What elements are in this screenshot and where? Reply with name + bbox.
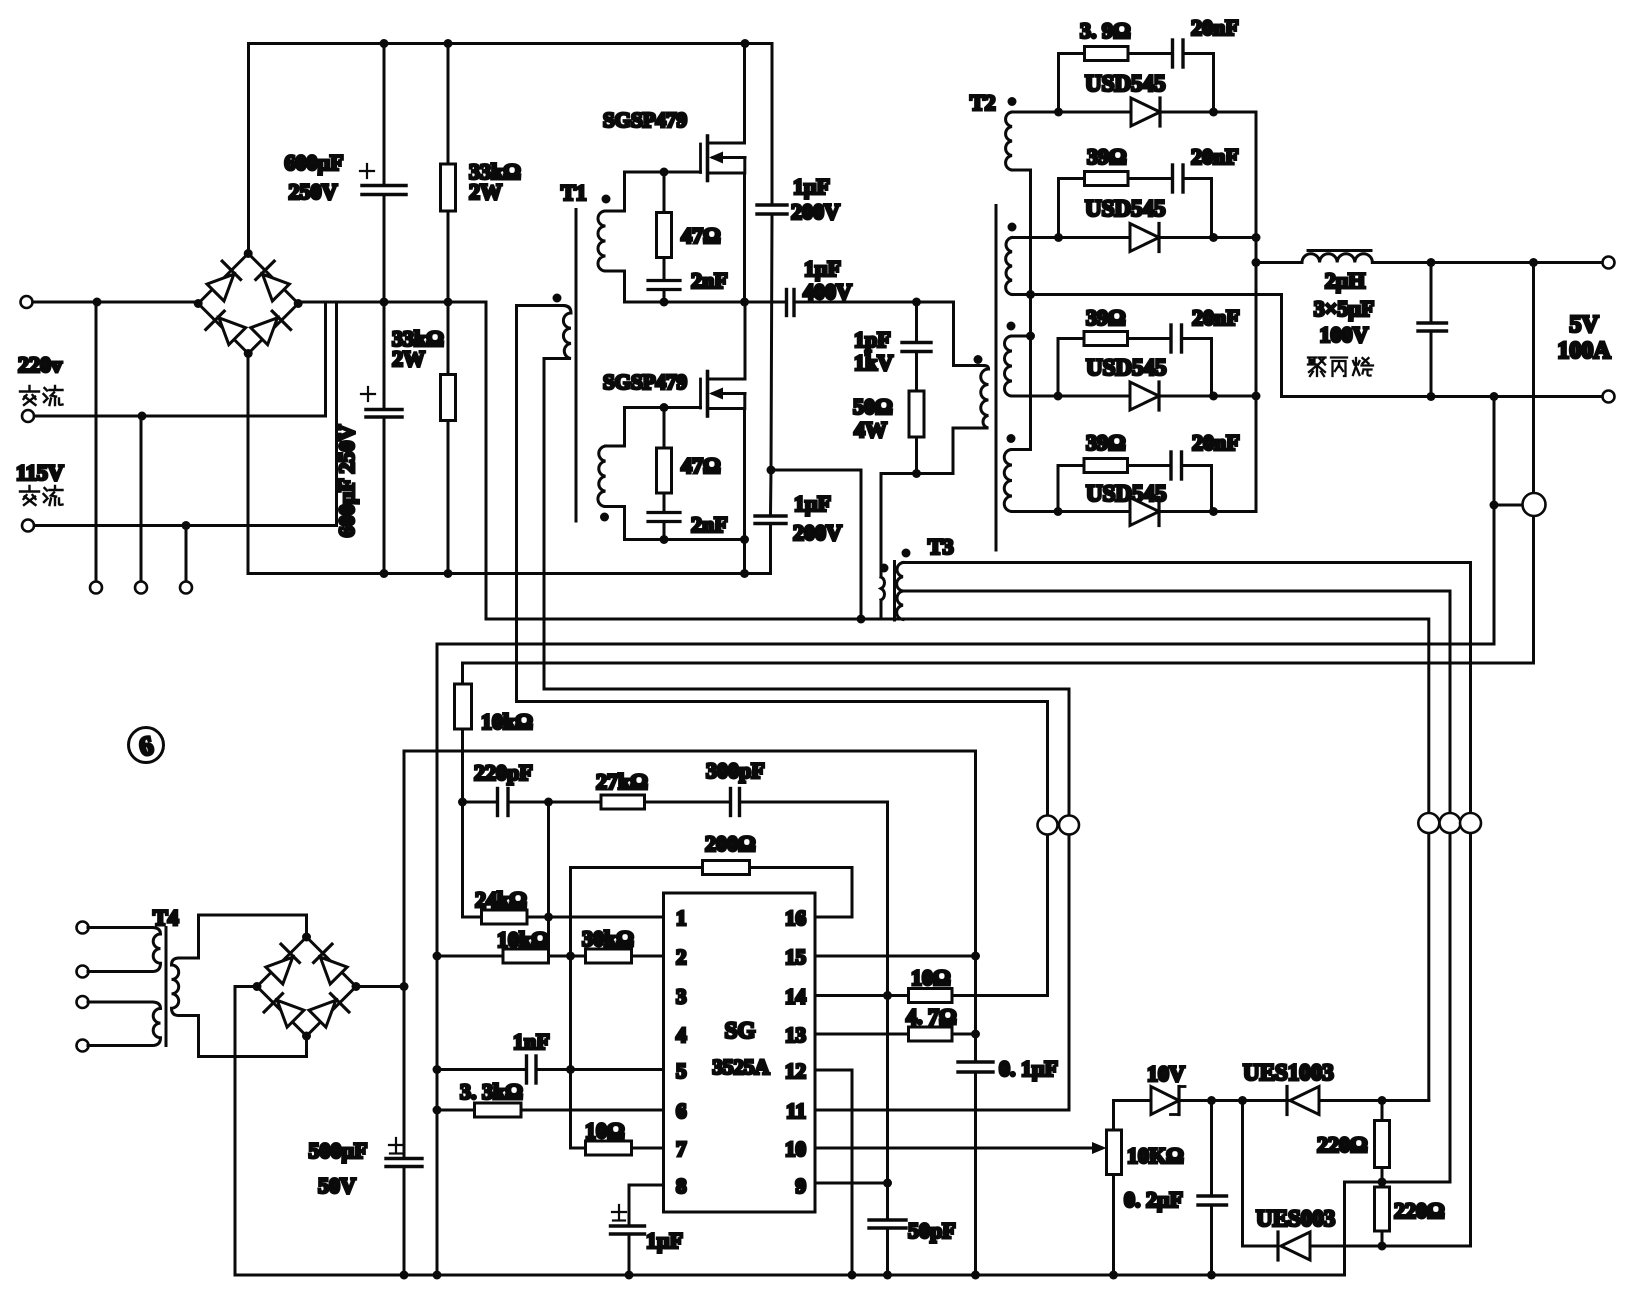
node 0.1uF bus on ground rail [971, 1271, 980, 1280]
node input3 tap [182, 521, 191, 530]
resistor R15 4.7 Ohm [909, 1027, 976, 1041]
svg-text:SGSP479: SGSP479 [603, 108, 687, 132]
svg-text:100V: 100V [1320, 322, 1369, 347]
resistor R13 10 Ohm pin7 [571, 1141, 664, 1155]
wire 200 Ohm feedback loop [571, 868, 853, 918]
resistor R17 220 Ohm upper [1375, 1101, 1390, 1188]
wire T3 secondary mid tap (long) [903, 591, 1450, 1182]
svg-text:2W: 2W [469, 179, 502, 204]
capacitor C10 500uF 50V [386, 1138, 422, 1275]
node C1 bottom on mid bus [380, 298, 389, 307]
terminal output + [1603, 257, 1615, 269]
svg-text:2nF: 2nF [691, 268, 728, 293]
wire HV return / T3 bottom line (long) [486, 619, 1429, 1101]
T2 primary winding [981, 366, 989, 429]
node Q2 source on cell bottom [740, 535, 749, 544]
node D3 cathode snubber join [1209, 392, 1218, 401]
IC U1 SG3525A box [664, 893, 816, 1212]
wire Vcc vertical [403, 751, 406, 1157]
T4 terminals [77, 922, 89, 1052]
node gate2 / R4 junction [660, 403, 669, 412]
svg-text:4W: 4W [854, 417, 887, 442]
wire pin9 line [815, 1182, 888, 1185]
snubber cell 2: resistor 39 Ohm [1059, 172, 1172, 238]
svg-text:10Ω: 10Ω [585, 1118, 625, 1143]
capacitor C15 0.1uF [958, 1062, 993, 1072]
node pin5 left end [433, 1065, 442, 1074]
svg-text:10: 10 [785, 1137, 806, 1161]
svg-text:10V: 10V [1147, 1061, 1185, 1086]
node pin6 left end [433, 1106, 442, 1115]
svg-text:9: 9 [796, 1174, 807, 1198]
wire w1-w2-w3-w4 common bus [1029, 170, 1032, 450]
node 50pF bus on ground rail [883, 1271, 892, 1280]
T4 primary winding upper [88, 928, 161, 972]
node output - / cap [1427, 392, 1436, 401]
wire UES003 right riser [1469, 1245, 1471, 1248]
svg-text:10kΩ: 10kΩ [497, 927, 549, 952]
svg-text:30kΩ: 30kΩ [582, 926, 634, 951]
svg-text:3: 3 [676, 985, 687, 1009]
resistor R14 10 Ohm [909, 989, 1048, 1003]
node D4 cathode snubber join [1209, 507, 1218, 516]
wire ground stub 1 [95, 302, 98, 582]
svg-text:13: 13 [785, 1023, 806, 1047]
svg-text:2: 2 [676, 945, 687, 969]
svg-text:39Ω: 39Ω [1087, 144, 1127, 169]
svg-text:SGSP479: SGSP479 [603, 370, 687, 394]
wire 220 Ohm mid tie line [1345, 1182, 1451, 1275]
resistor R3 47 Ohm [657, 172, 672, 279]
svg-text:400V: 400V [803, 279, 852, 304]
label U1 SG 3525A [712, 1018, 770, 1079]
svg-text:220v: 220v [18, 352, 62, 377]
node D2 row on cathode bus [1252, 233, 1261, 242]
node pin13 / 0.1uF bus [971, 1030, 980, 1039]
wire bead stub [1494, 504, 1523, 507]
terminal gnd 2 [135, 582, 147, 594]
zener diode D5 10V [1114, 1087, 1243, 1131]
node pin12 on ground rail [848, 1271, 857, 1280]
wire Vcc rail corner [404, 751, 976, 1062]
node 2nF/R3 bottom [660, 298, 669, 307]
node output + / sense drop [1529, 258, 1538, 267]
wire R5 junction to T2 primary bottom [917, 428, 985, 474]
capacitor C17 0.2uF [1198, 1101, 1227, 1276]
wire 220pF-27k node drop [547, 802, 550, 956]
transformer T3 core [893, 562, 896, 621]
label 115V AC (hanzi) [20, 486, 63, 505]
svg-text:47Ω: 47Ω [681, 223, 721, 248]
ferrite bead on +5V sense [1523, 493, 1546, 516]
resistor R9 10kOhm [503, 949, 586, 963]
svg-text:15: 15 [785, 945, 806, 969]
node T2 w3 phase dot [1007, 322, 1016, 331]
wire pin14 line [815, 994, 909, 997]
snubber cell 1: resistor 3.9 Ohm [1059, 47, 1172, 113]
svg-text:10kΩ: 10kΩ [481, 709, 533, 734]
diode D2 USD545 [1059, 224, 1257, 252]
wire ground stub 2 [140, 416, 143, 582]
resistor R12 3.3kOhm [475, 1103, 664, 1117]
svg-text:220Ω: 220Ω [1317, 1132, 1368, 1157]
node top rail / R1 junction [444, 39, 453, 48]
svg-text:600μF: 600μF [285, 150, 344, 175]
wire pin11 line [815, 1109, 1069, 1112]
label 5V 100A [1557, 312, 1611, 364]
node pin9 / 50pF bus [883, 1179, 892, 1188]
wire C5 top to T3 drop [771, 470, 861, 619]
svg-text:50pF: 50pF [908, 1218, 956, 1243]
T2 secondary winding 1 [1006, 112, 1059, 295]
label C8 value [791, 174, 840, 224]
svg-text:1kV: 1kV [854, 350, 893, 375]
node Q2 source on bottom rail [740, 569, 749, 578]
svg-text:14: 14 [785, 985, 807, 1009]
transistor Q2 SGSP479 [701, 302, 746, 574]
node mid wire / T2 primary top [912, 298, 921, 307]
wire voltage feedback line (0V sense) [437, 397, 1494, 1276]
wire pin8 to 1uF [629, 1185, 664, 1225]
node C5 top junction [767, 466, 776, 475]
svg-text:1nF: 1nF [513, 1029, 550, 1054]
terminal input 3 [22, 520, 34, 532]
wire pin14 riser to T1 lead A [1046, 702, 1049, 996]
capacitor C4 2nF [648, 513, 680, 540]
node D1 anode [1054, 108, 1063, 117]
node C11 left / R6 bottom [458, 798, 467, 807]
node R5 bottom junction [912, 469, 921, 478]
node T1 lower winding phase dot [600, 513, 609, 522]
node top rail / Q1 drain junction [741, 39, 750, 48]
svg-text:3. 3kΩ: 3. 3kΩ [460, 1079, 523, 1104]
node pin2 / 200 Ohm drop [566, 952, 575, 961]
resistor R1 33kOhm 2W [441, 44, 456, 303]
node D2 cathode snubber join [1209, 233, 1218, 242]
node zener line / UES003 drop [1238, 1096, 1247, 1105]
wire ground stub 3 [185, 526, 188, 583]
node R1 bottom on mid bus [444, 298, 453, 307]
resistor R4 47 Ohm [657, 408, 672, 512]
svg-text:0. 1μF: 0. 1μF [999, 1056, 1058, 1081]
transistor Q1 SGSP479 [701, 44, 746, 303]
svg-text:T2: T2 [970, 90, 996, 115]
wire +5V sense line [463, 263, 1534, 664]
T4 primary winding lower [88, 1002, 161, 1046]
bridge rectifier B1 [194, 249, 303, 358]
wire Q1 gate line [625, 171, 701, 174]
wire rectifier cathode bus [1255, 112, 1258, 512]
svg-text:2W: 2W [392, 346, 425, 371]
node input2 tap [138, 412, 147, 421]
label C5 value [793, 491, 842, 545]
node divider mid [1378, 1178, 1387, 1187]
svg-text:220Ω: 220Ω [1394, 1198, 1445, 1223]
label R1 value [469, 159, 521, 204]
svg-text:1μF: 1μF [793, 174, 830, 199]
terminal gnd 1 [90, 582, 102, 594]
T2 secondary winding 3 [1005, 336, 1059, 396]
svg-text:115V: 115V [16, 460, 64, 485]
node w1/w2 common [1026, 290, 1035, 299]
wire T1 primary lead B down [544, 359, 1069, 690]
capacitor C14 1uF [611, 1205, 645, 1275]
terminal output - [1603, 391, 1615, 403]
capacitor C11 220pF [463, 789, 549, 816]
transformer T2 core [995, 206, 998, 551]
node T3 secondary phase dot [902, 549, 911, 558]
node Vcc on ground rail [400, 1271, 409, 1280]
wire bridge B1 negative to bottom rail [248, 354, 771, 574]
label U1 pin numbers left [676, 906, 687, 1198]
terminal gnd 3 [180, 582, 192, 594]
svg-text:600μF 250V: 600μF 250V [334, 425, 359, 538]
terminal input 1 [21, 296, 33, 308]
svg-text:1pF: 1pF [854, 327, 891, 352]
svg-text:300pF: 300pF [706, 758, 765, 783]
wire pin12 to ground [815, 1070, 852, 1275]
svg-text:39Ω: 39Ω [1086, 430, 1126, 455]
node cathode bus to filter [1252, 258, 1261, 267]
wire half-bridge mid node (y302) [625, 301, 787, 304]
label R5 value [853, 394, 893, 442]
label C1 value [285, 150, 344, 204]
wire pin2 line with R9 R10 [437, 955, 503, 958]
svg-text:500μF: 500μF [309, 1138, 368, 1163]
node T2 w1 phase dot [1008, 97, 1017, 106]
capacitor C6 1uF 400V coupling [787, 290, 917, 316]
snubber cell 2: capacitor 20nF [1173, 165, 1212, 238]
svg-text:USD545: USD545 [1086, 481, 1167, 506]
capacitor C5 1uF 200V (lower) [755, 470, 786, 574]
svg-text:2nF: 2nF [691, 512, 728, 537]
node pin5 / vertical join [566, 1065, 575, 1074]
wire T3 secondary top lead (long) [903, 563, 1471, 1247]
node bead tap [1490, 501, 1499, 510]
resistor R8 27kOhm [549, 795, 730, 809]
resistor R2 33kOhm 2W (lower) [441, 302, 456, 574]
svg-text:50V: 50V [318, 1173, 356, 1198]
node T1 upper winding phase dot [602, 195, 611, 204]
label U1 pin numbers right [785, 906, 807, 1198]
svg-text:T1: T1 [561, 180, 587, 205]
svg-text:7: 7 [676, 1137, 687, 1161]
node zener line / 0.2uF [1207, 1096, 1216, 1105]
wire pin1 line [527, 916, 664, 919]
node top rail / C1 junction [380, 39, 389, 48]
wire pin5 line [437, 1068, 525, 1071]
node pin14 / 300pF bus [883, 991, 892, 1000]
svg-text:3. 9Ω: 3. 9Ω [1080, 18, 1131, 43]
resistor R7 24kOhm [463, 910, 528, 924]
ferrite bead pair on risers [1038, 816, 1080, 835]
node R2 bottom on bottom rail [444, 569, 453, 578]
capacitor C2 600uF 250V (lower) [361, 302, 402, 574]
capacitor C3 2nF [648, 281, 680, 303]
resistor R10 30kOhm [586, 949, 664, 963]
wire AC input line 3 (115V) [28, 302, 337, 526]
label C7 value [854, 327, 893, 375]
wire pin6 line [437, 1109, 475, 1112]
label C10 value [309, 1138, 368, 1198]
T2 secondary winding 4 [1004, 450, 1058, 512]
node T2 w2 phase dot [1008, 223, 1017, 232]
node fb bus on ground rail [433, 1271, 442, 1280]
node C17 on ground rail [1207, 1271, 1216, 1280]
svg-text:6: 6 [676, 1099, 687, 1123]
diode D1 USD545 [1059, 98, 1257, 126]
svg-text:UES1003: UES1003 [1243, 1060, 1334, 1085]
svg-text:T3: T3 [928, 534, 954, 559]
capacitor C13 1nF [527, 1056, 664, 1083]
node Q1 source / Q2 drain [740, 298, 749, 307]
snubber cell 4: resistor 39 Ohm [1058, 459, 1169, 512]
wire bridge B1 positive output to HV mid bus [299, 302, 487, 619]
diode D3 USD545 [1058, 382, 1256, 410]
svg-text:24kΩ: 24kΩ [475, 887, 527, 912]
wire top rail +HV [249, 44, 773, 254]
wire B2 minus to ground rail [235, 987, 1345, 1276]
diode D4 USD545 [1058, 498, 1256, 526]
bridge rectifier B2 [253, 933, 361, 1041]
svg-text:USD545: USD545 [1086, 355, 1167, 380]
T3 secondary winding [897, 563, 903, 620]
svg-text:27kΩ: 27kΩ [596, 769, 648, 794]
node D3 anode [1054, 392, 1063, 401]
wire pin15 line [815, 955, 976, 958]
svg-text:1μF: 1μF [804, 256, 841, 281]
svg-text:1μF: 1μF [794, 491, 831, 516]
T4 core [165, 928, 168, 1046]
transformer T1 core [575, 210, 578, 522]
label polypropylene (hanzi) [1308, 358, 1373, 377]
svg-text:3×5μF: 3×5μF [1314, 296, 1374, 321]
svg-text:SG: SG [725, 1018, 756, 1043]
pot wiper arrow [1092, 1142, 1107, 1154]
wire Q2 gate line [625, 406, 701, 409]
T1 primary winding [517, 306, 572, 359]
node C2 bottom on bottom rail [380, 569, 389, 578]
wire AC input line 2 (220v return) [28, 302, 326, 416]
T2 secondary winding 2 [1006, 238, 1059, 295]
node T1 primary phase dot [553, 294, 562, 303]
node w3 top on common bus [1026, 332, 1035, 341]
svg-text:20nF: 20nF [1192, 430, 1240, 455]
wire T2 primary top lead [917, 302, 985, 366]
node zener line / 220 Ohm 1 [1378, 1096, 1387, 1105]
svg-text:UES003: UES003 [1256, 1206, 1335, 1231]
wire pin11 riser to T1 lead B [1068, 689, 1071, 1110]
label L1 and output cap values [1314, 268, 1374, 347]
resistor R6 10kOhm (sense divider) [455, 663, 472, 917]
node pin2 left end [433, 952, 442, 961]
node pin15 / 0.1uF bus [971, 952, 980, 961]
resistor R5 50 Ohm 4W [909, 391, 924, 474]
node C4 bottom [660, 535, 669, 544]
node D1 cathode snubber join [1209, 108, 1218, 117]
ferrite bead triple on T3 lines [1418, 813, 1481, 833]
svg-text:39Ω: 39Ω [1086, 305, 1126, 330]
svg-text:4: 4 [676, 1023, 687, 1047]
svg-text:5: 5 [676, 1059, 687, 1083]
svg-text:20nF: 20nF [1191, 15, 1239, 40]
capacitor C9 output 3x5uF [1418, 263, 1447, 397]
svg-text:200V: 200V [793, 520, 842, 545]
svg-text:8: 8 [676, 1174, 687, 1198]
capacitor C16 50pF [869, 996, 906, 1276]
diode D7 UES003 [1278, 1232, 1469, 1260]
svg-text:47Ω: 47Ω [681, 453, 721, 478]
node C11 right [544, 798, 553, 807]
snubber cell 3: capacitor 20nF [1171, 325, 1212, 396]
svg-text:250V: 250V [289, 179, 338, 204]
wire UES003 branch [1243, 1101, 1277, 1247]
svg-text:3525A: 3525A [712, 1055, 770, 1079]
svg-text:100A: 100A [1557, 338, 1611, 364]
node pot bottom on ground rail [1109, 1271, 1118, 1280]
terminal input 2 [22, 410, 34, 422]
wire 200 Ohm left drop [569, 868, 572, 1149]
svg-text:5V: 5V [1569, 312, 1599, 338]
svg-text:16: 16 [785, 906, 806, 930]
capacitor C8 1uF 200V (upper) [757, 44, 787, 471]
resistor R18 220 Ohm lower [1375, 1187, 1390, 1246]
T1 upper gate winding [598, 172, 625, 302]
T1 lower gate winding [598, 408, 625, 540]
snubber cell 4: capacitor 20nF [1171, 452, 1212, 512]
wire B2 plus to Vcc [357, 985, 405, 988]
svg-text:10Ω: 10Ω [911, 965, 951, 990]
svg-text:2μH: 2μH [1325, 268, 1366, 293]
wire lower cell bottom [625, 538, 745, 541]
wire T2 w2 bottom return to output 0V [1012, 295, 1609, 397]
svg-text:12: 12 [785, 1059, 806, 1083]
figure number 6 [129, 728, 164, 763]
label R2 value [392, 326, 444, 371]
node output - / feedback drop [1490, 392, 1499, 401]
node UES003 line / 220 Ohm 2 bottom [1378, 1242, 1387, 1251]
svg-text:USD545: USD545 [1085, 71, 1166, 96]
potentiometer R16 10KOhm [1107, 1130, 1122, 1275]
wire AC input line 1 (220v) [27, 301, 199, 304]
inductor L1 2uH [1256, 251, 1609, 263]
svg-text:USD545: USD545 [1085, 196, 1166, 221]
node gate1 / R3 junction [660, 168, 669, 177]
node D3 row on cathode bus [1252, 392, 1261, 401]
node output + / cap [1427, 258, 1436, 267]
svg-text:200Ω: 200Ω [705, 831, 756, 856]
svg-text:20nF: 20nF [1192, 305, 1240, 330]
node pin1 / 27k drop [544, 913, 553, 922]
node T3 primary phase dot [880, 564, 889, 573]
capacitor C1 600uF 250V [360, 44, 406, 303]
snubber cell 3: resistor 39 Ohm [1058, 332, 1169, 397]
wire pin13 line [815, 1033, 909, 1036]
capacitor C7 1pF 1kV [902, 302, 931, 391]
svg-text:20nF: 20nF [1191, 144, 1239, 169]
label 220v AC (hanzi) [20, 386, 63, 405]
svg-text:220pF: 220pF [474, 760, 533, 785]
svg-text:1μF: 1μF [646, 1228, 683, 1253]
snubber cell 1: capacitor 20nF [1173, 40, 1214, 112]
node C14 on ground rail [625, 1271, 634, 1280]
T3 primary winding [881, 575, 884, 619]
wire pin16 stub [815, 916, 852, 919]
node D4 anode [1054, 507, 1063, 516]
svg-text:1: 1 [676, 906, 687, 930]
node T2 w4 phase dot [1007, 434, 1016, 443]
resistor R11 200 Ohm [703, 861, 750, 875]
